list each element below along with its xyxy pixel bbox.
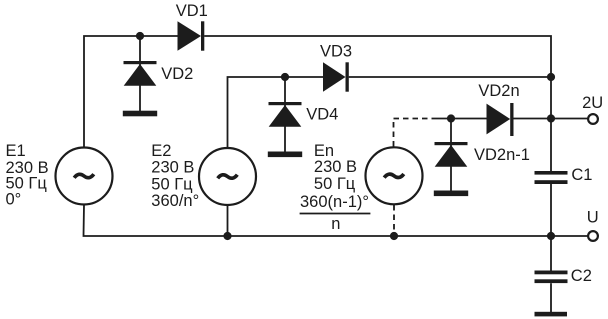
wire U junction to C2 bbox=[550, 236, 552, 271]
diode VD2n bbox=[487, 103, 514, 136]
wire E1 bottom to rail bbox=[84, 205, 552, 236]
svg-text:360/n°: 360/n° bbox=[151, 192, 199, 210]
wire VD1 cathode to right rail and down to C1 bbox=[204, 36, 551, 171]
diode VD2n-1 bbox=[434, 142, 468, 196]
source En bbox=[366, 147, 423, 204]
wire VD4 branch bbox=[284, 77, 286, 152]
svg-text:230 В: 230 В bbox=[151, 158, 194, 176]
wire dashed rail3 segment bbox=[394, 118, 435, 120]
wire right rail to 2U terminal bbox=[551, 118, 588, 120]
wire VD2n cathode to right rail bbox=[514, 118, 552, 120]
wire VD2 branch bbox=[139, 36, 141, 111]
wire En bottom dashed drop bbox=[393, 205, 395, 236]
node junction at VD2 top bbox=[136, 32, 144, 40]
wire VD3 cathode to right rail bbox=[349, 76, 551, 78]
svg-text:C1: C1 bbox=[571, 166, 592, 184]
wire C2 to bottom terminal bbox=[550, 283, 552, 312]
wire rail1 junction to VD1 anode bbox=[140, 35, 178, 37]
wire VD2n-1 branch bbox=[450, 119, 452, 191]
svg-text:VD2: VD2 bbox=[161, 65, 193, 83]
node junction E2 bottom bbox=[223, 232, 231, 240]
svg-text:VD3: VD3 bbox=[320, 42, 352, 60]
wire solid rail3 to VD2n anode bbox=[434, 118, 487, 120]
source E2 bbox=[199, 148, 256, 205]
wire rail2 junction to VD3 anode bbox=[285, 76, 323, 78]
svg-text:U: U bbox=[587, 208, 599, 226]
diode VD4 bbox=[268, 102, 302, 157]
node junction at VD2n-1 top bbox=[447, 114, 455, 122]
svg-text:E2: E2 bbox=[151, 142, 171, 160]
node junction right rail row2 bbox=[547, 73, 555, 81]
diode VD3 bbox=[323, 62, 349, 91]
svg-text:VD2n-1: VD2n-1 bbox=[474, 146, 530, 164]
terminal 2U bbox=[588, 114, 598, 124]
svg-text:VD2n: VD2n bbox=[478, 82, 519, 100]
label E2 block bbox=[151, 142, 199, 210]
svg-text:50 Гц: 50 Гц bbox=[314, 175, 356, 193]
wire U junction to U terminal bbox=[551, 235, 588, 237]
node junction En bottom bbox=[390, 232, 398, 240]
svg-text:50 Гц: 50 Гц bbox=[151, 175, 193, 193]
capacitor C1 bbox=[535, 171, 568, 184]
wire E2 top to rail2 bbox=[228, 77, 286, 148]
node junction U rail bbox=[547, 232, 555, 240]
wire En top dashed riser bbox=[393, 119, 395, 147]
wire E1 top to rail1 bbox=[84, 36, 140, 147]
svg-text:n: n bbox=[331, 215, 340, 233]
wire C1 to U junction bbox=[550, 184, 552, 236]
node junction right rail row3 bbox=[547, 114, 555, 122]
label En block bbox=[300, 142, 371, 233]
capacitor C2 bbox=[535, 271, 568, 284]
svg-text:360(n-1)°: 360(n-1)° bbox=[300, 193, 369, 211]
svg-text:C2: C2 bbox=[571, 267, 592, 285]
label E1 block bbox=[6, 142, 49, 209]
svg-text:230 В: 230 В bbox=[314, 158, 357, 176]
terminal U bbox=[588, 231, 598, 241]
svg-text:2U: 2U bbox=[582, 94, 603, 112]
svg-text:0°: 0° bbox=[6, 190, 22, 208]
svg-text:VD4: VD4 bbox=[306, 105, 338, 123]
ground bar below C2 bbox=[535, 312, 568, 317]
svg-text:VD1: VD1 bbox=[176, 2, 208, 20]
diode VD2 bbox=[123, 61, 157, 116]
wire E2 bottom drop bbox=[227, 206, 229, 236]
source E1 bbox=[56, 148, 113, 205]
diode VD1 bbox=[178, 21, 205, 50]
svg-text:E1: E1 bbox=[6, 142, 26, 160]
node junction at VD4 top bbox=[281, 73, 289, 81]
